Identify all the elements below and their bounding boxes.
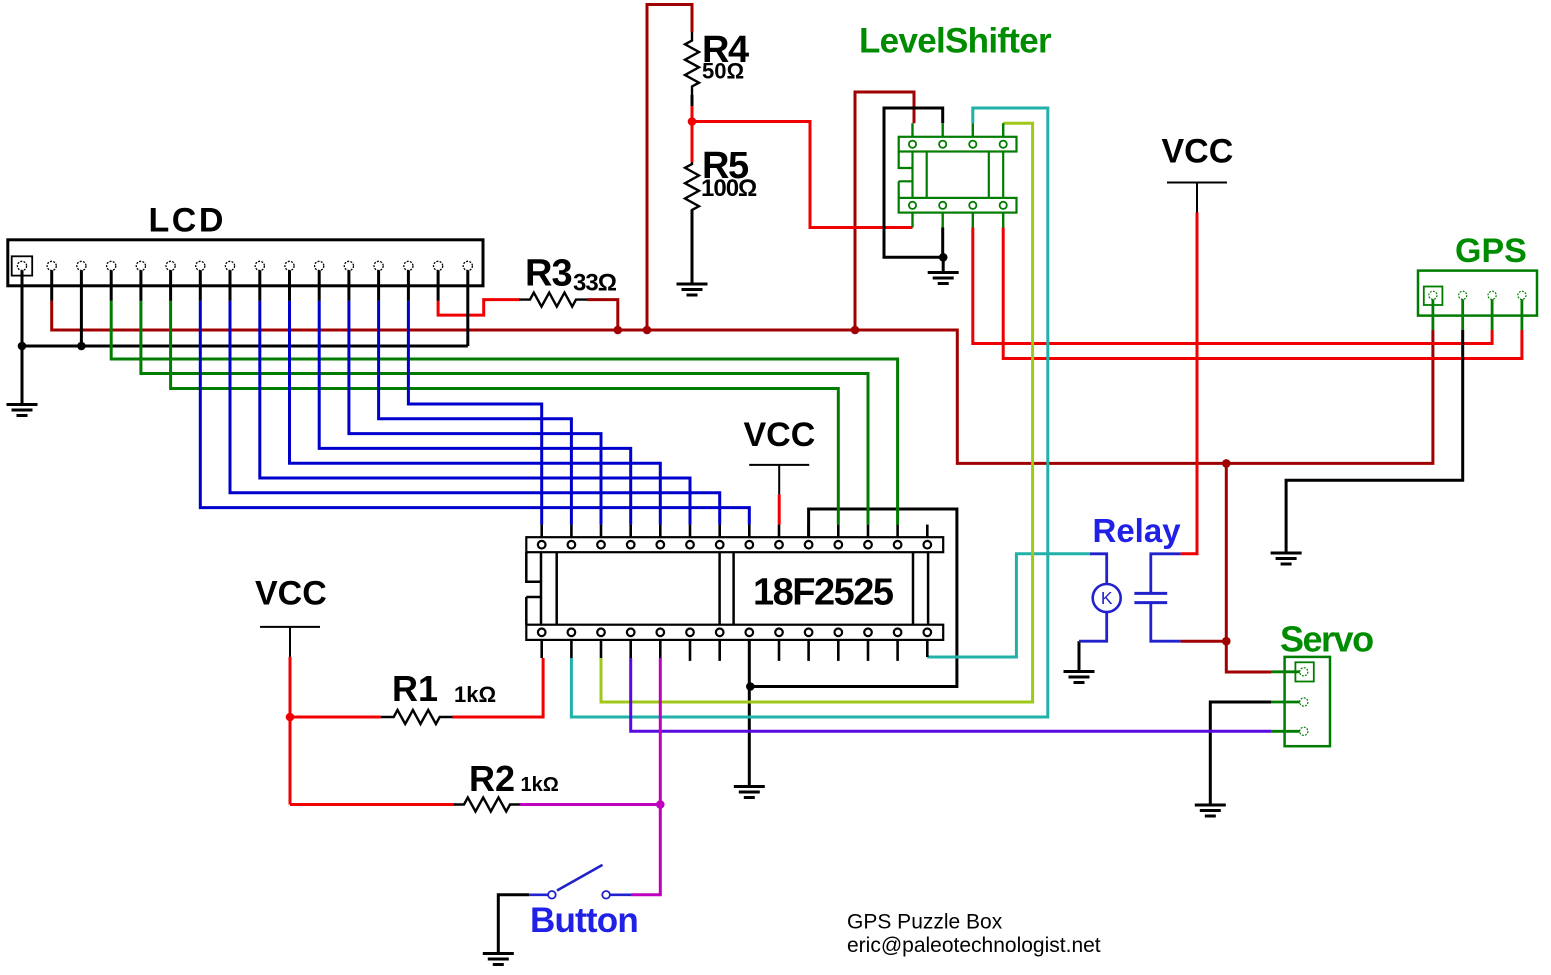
wire blue: LCD pin14 to IC pin 1	[408, 301, 541, 525]
junction LevelShifter ground node	[939, 253, 948, 262]
wire green: LCD pin5 to IC pin 18	[141, 301, 868, 525]
wire black: LCD pin16 down to black bus	[466, 266, 469, 346]
VCC symbol left	[260, 626, 320, 628]
ground Servo pin2	[1195, 805, 1226, 816]
LCD pin 15	[437, 266, 440, 301]
relay capacitor bottom lead	[1151, 603, 1181, 642]
wire red: R4/R5 junction to LevelShifter pin1 bottom	[691, 106, 694, 162]
wire blue: LCD pin13 to IC pin 2	[379, 301, 572, 525]
IC U1 bottom pin 22	[716, 629, 724, 637]
IC U1 top pin 2	[568, 541, 576, 549]
VCC symbol middle	[749, 464, 809, 466]
wire red: VCC middle down to IC pin 20	[778, 494, 781, 524]
wire darkred: R4 top loop from bus to resistor top	[647, 5, 692, 331]
LevelShifter bottom pin 7	[969, 202, 976, 209]
LCD pin 9	[258, 266, 261, 301]
junction relay cap / servo node	[1222, 637, 1231, 646]
wire darkred: branch from GPS feed down to relay/servo node	[1225, 463, 1228, 641]
wire magenta: R2 right lead to node	[520, 803, 660, 806]
LevelShifter U2 bottom pin strip	[899, 198, 1017, 213]
ground LevelShifter	[928, 273, 959, 284]
wire red: LevelShifter pin4 bottom to GPS pin4	[1003, 228, 1522, 359]
ground button	[483, 954, 514, 965]
ground GPS pin2	[1271, 553, 1302, 564]
IC U1 bottom pin 25	[627, 629, 635, 637]
wire black: LevelShifter ground stub	[942, 257, 945, 271]
wire red: VCC left rail down past R1 to R2	[289, 657, 292, 805]
wire black: IC pin 19 to ground	[748, 640, 751, 786]
wire blue: LCD pin11 to IC pin 4	[319, 301, 631, 525]
wire blue: LCD pin10 to IC pin 5	[290, 301, 661, 525]
resistor R3 body	[519, 293, 587, 307]
LevelShifter bottom pin 8	[1000, 202, 1007, 209]
wire black: IC pin 21 loop to pin 19 ground node	[750, 509, 957, 687]
IC U1 top pin 6	[686, 541, 694, 549]
LCD pin 10	[288, 266, 291, 301]
junction VCC rail at R1	[286, 713, 295, 722]
GPS pin1 square	[1424, 287, 1443, 306]
IC U1 top pin 12	[864, 541, 872, 549]
VCC symbol right	[1167, 182, 1227, 184]
junction LCD pin1 bus	[18, 342, 27, 351]
wire teal: IC pin 27 to LevelShifter pin3 top	[571, 108, 1047, 717]
LevelShifter bottom pin 6	[939, 202, 946, 209]
IC U1 bottom pin 20	[775, 629, 783, 637]
junction R4/R5 divider	[688, 117, 697, 126]
IC U1 top pin 5	[657, 541, 665, 549]
svg-text:eric@paleotechnologist.net: eric@paleotechnologist.net	[847, 934, 1101, 957]
IC U1 top pin 8	[746, 541, 754, 549]
junction R3 at bus	[614, 326, 623, 335]
GPS pin 3	[1488, 291, 1496, 299]
wire purple: IC pin 25 to Servo pin3	[631, 658, 1271, 731]
wire blue: LCD pin9 to IC pin 6	[260, 301, 690, 525]
wire black: LCD pin3 down to black bus	[80, 266, 83, 346]
LCD pin 5	[139, 266, 142, 301]
IC U1 body outline with pin1 notch	[526, 552, 541, 625]
LCD pin 16	[463, 261, 472, 270]
resistor R1 body	[381, 710, 453, 724]
wire blue: LCD pin7 to IC pin 8	[200, 301, 749, 525]
resistor R5 body	[685, 162, 699, 212]
svg-text:50Ω: 50Ω	[702, 59, 744, 84]
LCD pin 7	[199, 266, 202, 301]
LevelShifter bottom pin 5	[909, 202, 916, 209]
ground IC pin 19	[734, 787, 765, 798]
GPS pin 1	[1429, 291, 1437, 299]
button left lead	[529, 893, 548, 896]
svg-text:VCC: VCC	[1162, 132, 1234, 170]
svg-text:Relay: Relay	[1093, 512, 1182, 549]
LCD pin 8	[229, 266, 232, 301]
IC U1 bottom pin 28	[538, 629, 546, 637]
IC U1 bottom pin 27	[568, 629, 576, 637]
IC U1 top pin 7	[716, 541, 724, 549]
IC U1 bottom pin 19	[805, 629, 813, 637]
relay capacitor plates	[1134, 592, 1167, 595]
svg-text:Button: Button	[530, 901, 638, 940]
svg-text:LevelShifter: LevelShifter	[859, 21, 1052, 60]
wire red: LCD pin15 jog to R3	[438, 300, 519, 316]
svg-text:R2: R2	[469, 758, 515, 799]
IC U1 bottom pin 26	[597, 629, 605, 637]
IC U1 top pin 4	[627, 541, 635, 549]
relay coil top lead	[1090, 554, 1107, 584]
wire darkred: R3 output down to bus	[587, 300, 618, 330]
wire olive: IC pin 26 to LevelShifter pin4 top	[601, 123, 1033, 702]
GPS pin 2	[1459, 291, 1467, 299]
IC U1 bottom pin strip	[526, 625, 943, 640]
LevelShifter U2 body outline with notch	[899, 152, 913, 198]
wire black: LevelShifter pin2 bottom to ground node	[941, 228, 944, 258]
connector Servo body	[1285, 657, 1330, 746]
junction magenta R2/button node	[656, 800, 665, 809]
wire red: R1 left lead	[290, 716, 381, 719]
IC U1 top pin 1	[538, 541, 546, 549]
Servo pin 1	[1300, 668, 1308, 676]
wire black: LevelShifter pin2 top loop to pin2 bottom	[884, 108, 943, 257]
IC U1 bottom pin 23	[686, 629, 694, 637]
resistor R2 body	[454, 798, 520, 812]
wire darkred: relay cap bottom to node	[1181, 640, 1227, 643]
IC U1 bottom pin 18	[835, 629, 843, 637]
junction LCD pin3 bus	[77, 342, 86, 351]
GPS pin 4	[1518, 291, 1526, 299]
wire black: ground bus pin1-pin16	[22, 345, 468, 348]
wire red: R2 left lead	[290, 803, 454, 806]
ground relay coil	[1064, 672, 1095, 683]
relay coil bottom lead	[1079, 612, 1107, 641]
LevelShifter top pin 2	[939, 141, 946, 148]
wire green: LCD pin4 to IC pin 17	[111, 301, 897, 525]
Servo pin1 square	[1295, 662, 1313, 681]
wire teal: IC pin 15 to relay coil top	[927, 554, 1090, 657]
wire blue: LCD pin8 to IC pin 7	[230, 301, 720, 525]
connector J1 LCD body	[8, 240, 483, 286]
junction R4 branch at bus	[643, 326, 652, 335]
IC U1 18F2525 top pin strip	[526, 537, 943, 552]
IC U1 top pin 13	[894, 541, 902, 549]
wire black: LCD pin1 to ground	[21, 266, 24, 404]
wire black: R5 bottom to ground	[691, 210, 694, 283]
button left contact	[548, 891, 556, 899]
LCD pin 3	[77, 261, 86, 270]
button lever	[557, 865, 603, 891]
LevelShifter top pin 4	[1000, 141, 1007, 148]
LCD pin 2	[50, 266, 53, 301]
junction LevelShifter feed at bus	[851, 326, 860, 335]
svg-text:1kΩ: 1kΩ	[521, 774, 559, 796]
svg-text:Servo: Servo	[1280, 618, 1373, 659]
wire red: VCC right down to relay cap top	[1181, 213, 1197, 554]
relay coil K circle	[1093, 584, 1121, 612]
connector GPS body	[1418, 271, 1537, 316]
wire black: GPS pin2 to ground	[1286, 330, 1463, 552]
svg-text:R1: R1	[392, 668, 438, 709]
wire black: button left contact to ground	[498, 895, 529, 953]
wire black: Servo pin2 to ground	[1210, 702, 1271, 804]
IC U1 bottom pin 24	[657, 629, 665, 637]
LevelShifter top pin 1	[909, 141, 916, 148]
button right lead	[610, 893, 631, 896]
LCD pin 6	[169, 266, 172, 301]
wire net-VBUS darkred: LCD pin2 to GPS pin1	[52, 301, 1433, 464]
IC U1 bottom pin 17	[864, 629, 872, 637]
relay capacitor top lead	[1151, 554, 1181, 594]
LevelShifter top pin 3	[969, 141, 976, 148]
wire blue: LCD pin12 to IC pin 3	[349, 301, 601, 525]
LevelShifter U2 top pin strip	[899, 137, 1017, 152]
wire black: relay coil bottom to ground	[1078, 641, 1081, 670]
LCD pin 4	[110, 266, 113, 301]
ground LCD pin1	[7, 405, 38, 416]
IC U1 top pin 14	[924, 541, 932, 549]
junction GPS feed / relay branch	[1222, 459, 1231, 468]
LCD pin 12	[347, 266, 350, 301]
wire darkred: bus up to LevelShifter pin1 top	[855, 92, 914, 330]
IC U1 top pin 9	[775, 541, 783, 549]
LCD pin1 square	[12, 256, 33, 275]
wire green: LCD pin6 to IC pin 16	[171, 301, 839, 525]
wire red: R1 right lead up to IC pin 28	[453, 658, 543, 717]
svg-text:GPS: GPS	[1455, 232, 1527, 270]
ground R5	[677, 284, 708, 295]
LCD pin 1	[17, 261, 26, 270]
svg-text:18F2525: 18F2525	[753, 571, 894, 613]
wire magenta: IC pin 24 down to button right contact	[631, 658, 660, 895]
svg-text:VCC: VCC	[744, 416, 816, 454]
svg-text:GPS Puzzle Box: GPS Puzzle Box	[847, 911, 1003, 934]
LCD pin 14	[407, 266, 410, 301]
svg-text:VCC: VCC	[255, 575, 327, 613]
svg-text:K: K	[1101, 588, 1113, 608]
button right contact	[602, 891, 610, 899]
svg-text:R3: R3	[525, 252, 572, 294]
IC U1 top pin 10	[805, 541, 813, 549]
IC U1 top pin 11	[835, 541, 843, 549]
wire red: LevelShifter pin3 bottom to GPS pin3	[973, 228, 1492, 344]
resistor R4 body	[685, 32, 699, 95]
svg-text:LCD: LCD	[149, 202, 226, 240]
LCD pin 13	[377, 266, 380, 301]
wire darkred: node down and right to Servo pin1	[1226, 641, 1271, 672]
Servo pin 3	[1300, 727, 1308, 735]
IC U1 top pin 3	[597, 541, 605, 549]
LCD pin 11	[318, 266, 321, 301]
svg-text:100Ω: 100Ω	[701, 175, 757, 202]
IC U1 bottom pin 16	[894, 629, 902, 637]
svg-text:1kΩ: 1kΩ	[454, 682, 496, 707]
IC U1 bottom pin 15	[924, 629, 932, 637]
svg-text:33Ω: 33Ω	[573, 270, 617, 297]
junction IC ground node	[746, 682, 755, 691]
Servo pin 2	[1300, 698, 1308, 706]
IC U1 bottom pin 21	[746, 629, 754, 637]
